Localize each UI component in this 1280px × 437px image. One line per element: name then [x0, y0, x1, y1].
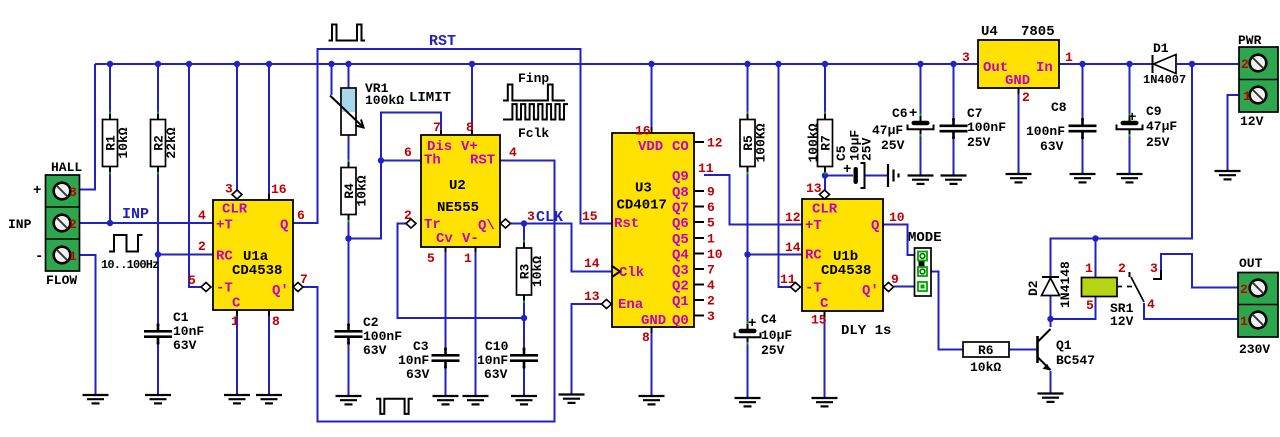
svg-text:CD4538: CD4538 — [821, 263, 871, 279]
junction rail/VDD U3 — [648, 61, 654, 67]
svg-text:Q: Q — [871, 218, 879, 234]
svg-text:16: 16 — [271, 182, 287, 197]
wire D1 to PWR pin2 — [1177, 63, 1239, 65]
wire MODE pin2 to R6 — [931, 272, 963, 350]
junction rail/V+ — [469, 61, 475, 67]
junction 12V/relay pin1 — [1092, 235, 1098, 241]
ground (U4 GND) — [1006, 174, 1032, 182]
svg-text:Q': Q' — [272, 283, 289, 299]
U3 pin names — [614, 139, 689, 329]
ground (C6) — [908, 176, 934, 184]
resistor R5 100K — [740, 112, 769, 175]
svg-text:DLY 1s: DLY 1s — [841, 323, 891, 339]
svg-text:3: 3 — [527, 209, 535, 224]
svg-text:D1: D1 — [1153, 41, 1169, 56]
svg-text:5: 5 — [427, 251, 435, 266]
resistor R6 10k — [963, 342, 1009, 375]
wire LIMIT net to U2 Dis pin7 — [349, 113, 442, 239]
resistor R4 10k — [341, 160, 370, 223]
svg-text:3: 3 — [1150, 261, 1158, 276]
svg-text:100KΩ: 100KΩ — [754, 123, 769, 162]
wire R6 to Q1 base — [1009, 349, 1038, 351]
U4 pin names — [983, 60, 1053, 89]
inverting bubble U1a CLR pin3 — [232, 190, 242, 199]
wire rail to R1 — [109, 64, 111, 120]
IC U3 CD4017 body — [612, 133, 694, 327]
svg-text:6: 6 — [297, 208, 305, 223]
svg-text:Q9: Q9 — [672, 169, 689, 185]
svg-text:11: 11 — [698, 161, 714, 176]
svg-text:16: 16 — [635, 124, 651, 139]
svg-text:10kΩ: 10kΩ — [116, 127, 131, 158]
inverting bubble U1b CLR pin13 — [820, 190, 830, 199]
svg-text:10: 10 — [889, 210, 905, 225]
wire rail to U2 V+ pin8 — [471, 64, 473, 130]
svg-text:1: 1 — [1243, 89, 1251, 104]
ground (C9) — [1117, 174, 1143, 182]
junction rail/C7 — [950, 61, 956, 67]
waveform symbol Finp — [503, 85, 565, 101]
wire R2 to RC node — [157, 167, 159, 255]
relay switch arm — [1131, 277, 1144, 302]
svg-text:25V: 25V — [1146, 135, 1170, 150]
wire rail to U1a CLR pin3 — [236, 64, 238, 190]
wire U1a Q-bar to U2 RST pin4 — [303, 161, 555, 422]
svg-text:8: 8 — [272, 314, 280, 329]
wire rail to C7 — [953, 64, 955, 125]
svg-text:C8: C8 — [1051, 100, 1067, 115]
wire node to C10 — [523, 318, 525, 353]
wire rail to U1b -T pin11 — [779, 64, 791, 287]
relay link (dashed) — [1117, 286, 1137, 288]
capacitor C6 electrolytic — [908, 114, 934, 137]
svg-text:14: 14 — [785, 240, 801, 255]
wire RC node down to C1 — [157, 255, 159, 329]
wire rail to HALL pin3 — [80, 64, 96, 190]
svg-text:RC: RC — [805, 248, 822, 264]
IC U2 NE555 body — [421, 135, 500, 247]
svg-text:INP: INP — [122, 206, 149, 223]
svg-text:Rst: Rst — [614, 216, 639, 232]
svg-text:5: 5 — [707, 216, 715, 231]
ground (U1a pin1) — [224, 395, 250, 403]
svg-text:MODE: MODE — [908, 230, 942, 246]
svg-text:Fclk: Fclk — [518, 126, 549, 141]
PWR pin numbers — [1241, 57, 1251, 104]
wire U2 Cv pin5 to C3 — [445, 252, 447, 353]
svg-text:2: 2 — [1240, 282, 1248, 297]
U2 top/bottom pin stubs — [441, 130, 476, 252]
wire rail to U1a pin16 — [268, 64, 270, 200]
junction rail/pin16 — [266, 61, 272, 67]
wire U4 GND pin2 to ground — [1018, 88, 1020, 174]
svg-text:+T: +T — [805, 218, 822, 234]
ground (C1) — [145, 395, 171, 403]
svg-text:C10: C10 — [485, 339, 509, 354]
svg-text:1: 1 — [69, 249, 77, 264]
wire rail to VR1 wiper — [331, 64, 333, 95]
resistor R1 10k — [103, 112, 132, 175]
svg-text:Q4: Q4 — [672, 248, 689, 264]
wire U3 Q9 pin11 to U1b +T pin12 — [704, 175, 802, 225]
svg-text:+: + — [33, 183, 41, 199]
U2 pin numbers — [404, 120, 535, 266]
svg-text:C3: C3 — [413, 339, 429, 354]
transistor Q1 BC547 — [1038, 329, 1051, 371]
svg-text:Ena: Ena — [618, 297, 644, 313]
svg-text:OUT: OUT — [1239, 256, 1263, 271]
ground (C3) — [433, 396, 459, 404]
wire R3 to node — [523, 294, 525, 319]
svg-text:Q0: Q0 — [672, 313, 689, 329]
svg-text:10..100Hz: 10..100Hz — [101, 258, 159, 272]
wire U1b Q-bar pin9 to MODE pin3 — [894, 286, 915, 288]
resistor R2 22k — [151, 112, 180, 175]
MODE jumper header — [915, 248, 932, 296]
svg-text:63V: 63V — [363, 343, 387, 358]
svg-text:RST: RST — [470, 153, 495, 169]
svg-text:3: 3 — [69, 185, 77, 200]
wire INP net HALL pin2 to U1a +T — [80, 222, 214, 224]
svg-text:10: 10 — [707, 247, 723, 262]
svg-text:Cv: Cv — [436, 231, 453, 247]
svg-text:Q2: Q2 — [672, 279, 689, 295]
relay contact pin2 — [1129, 272, 1131, 277]
svg-text:1: 1 — [1065, 50, 1073, 65]
ground (C8) — [1070, 174, 1096, 182]
svg-text:1N4007: 1N4007 — [1143, 73, 1186, 87]
svg-text:C6: C6 — [892, 106, 908, 121]
OUT pin numbers — [1240, 282, 1248, 329]
inverting bubble U2 Tr pin2 — [406, 219, 416, 228]
ground (U2 V-) — [463, 396, 489, 404]
wire switch pin3 to OUT pin2 — [1161, 254, 1238, 288]
wire C5 to ground — [864, 175, 888, 177]
svg-text:In: In — [1036, 60, 1053, 76]
svg-text:6: 6 — [404, 145, 412, 160]
wire R4 to timing node — [348, 216, 350, 239]
wire 12V net to C8 — [1082, 64, 1084, 125]
wire rail to C6 — [920, 64, 922, 122]
diode D1 1N4007 — [1153, 55, 1177, 74]
U3 Clk triangle pin14 — [612, 266, 620, 277]
ground (U1b pin15) — [812, 398, 838, 406]
svg-text:63V: 63V — [484, 367, 508, 382]
svg-text:47μF: 47μF — [1146, 119, 1177, 134]
svg-text:PWR: PWR — [1238, 33, 1262, 48]
wire U4 In to D1 — [1059, 63, 1152, 65]
junction R7/C5/CLR — [822, 172, 828, 178]
wire rail to R5 — [747, 64, 749, 120]
wire C7 to ground — [953, 133, 955, 176]
U3 output pin names Q9..Q1 — [672, 169, 689, 310]
U1b pin names — [805, 202, 879, 313]
svg-text:GND: GND — [641, 313, 666, 329]
junction 12V/PWR — [1189, 61, 1195, 67]
IC pin lead stubs — [237, 88, 1019, 333]
svg-text:1: 1 — [1240, 314, 1248, 329]
svg-text:C1: C1 — [173, 310, 189, 325]
svg-text:13: 13 — [584, 289, 600, 304]
svg-text:-T: -T — [216, 281, 233, 297]
inverting bubble U1a Q-bar pin7 — [293, 283, 303, 292]
U3 output pin stubs — [694, 142, 704, 316]
svg-text:CLR: CLR — [222, 202, 248, 218]
ground (U1a pin8) — [256, 395, 282, 403]
svg-text:1: 1 — [231, 314, 239, 329]
svg-text:12: 12 — [707, 136, 723, 151]
inverting bubble U1b Q-bar pin9 — [884, 283, 894, 292]
svg-text:Q\: Q\ — [478, 218, 495, 234]
svg-text:14: 14 — [584, 256, 600, 271]
junction relay pin5/Q1 collector — [1047, 316, 1053, 322]
U1a pin names — [216, 202, 289, 312]
svg-text:8: 8 — [642, 330, 650, 345]
wire LIMIT node to U2 Th pin6 — [381, 160, 421, 162]
svg-text:Q3: Q3 — [672, 263, 689, 279]
svg-text:2: 2 — [1118, 261, 1126, 276]
junction rail/-T U1b — [775, 61, 781, 67]
svg-text:12: 12 — [785, 210, 801, 225]
capacitor C8 — [1069, 118, 1097, 139]
wire relay pin5 to collector node — [1051, 297, 1096, 320]
U2 pin names — [424, 139, 495, 247]
regulator U4 7805 body — [978, 40, 1059, 88]
junction rail/CLR — [234, 61, 240, 67]
relay SR1 coil — [1082, 278, 1118, 297]
svg-text:C: C — [232, 296, 241, 312]
wire U1b Q pin10 to MODE pin1 — [883, 225, 915, 256]
wire CLR node to C5 — [825, 175, 853, 177]
svg-text:4: 4 — [198, 208, 206, 223]
IC U1b CD4538 body — [802, 199, 883, 311]
junction CLK/R3 — [521, 220, 527, 226]
svg-text:1: 1 — [464, 251, 472, 266]
svg-text:Q1: Q1 — [672, 294, 689, 310]
ground (C4) — [735, 398, 761, 406]
wire +5V top rail — [95, 63, 978, 65]
svg-text:RST: RST — [429, 33, 456, 50]
svg-text:C7: C7 — [967, 106, 983, 121]
svg-text:25V: 25V — [860, 137, 875, 161]
svg-text:10nF: 10nF — [173, 324, 204, 339]
connector PWR (2-pin) — [1239, 47, 1278, 112]
U4 pin numbers — [962, 50, 1073, 105]
svg-text:C9: C9 — [1146, 104, 1162, 119]
wire 12V net to C9 — [1129, 64, 1131, 122]
relay pin numbers — [1085, 261, 1158, 313]
svg-text:U3: U3 — [635, 181, 652, 197]
svg-text:2: 2 — [707, 294, 715, 309]
svg-text:HALL: HALL — [51, 160, 82, 175]
svg-text:10nF: 10nF — [398, 353, 429, 368]
svg-text:2: 2 — [69, 217, 77, 232]
svg-text:+: + — [1128, 110, 1136, 126]
U1a pin numbers — [188, 182, 308, 330]
ground (U3 pin8) — [639, 396, 665, 404]
wire R1 to INP net — [109, 167, 111, 224]
svg-text:2: 2 — [1241, 57, 1249, 72]
waveform symbol inverted pulses — [376, 399, 413, 414]
wire rail to R7 — [824, 64, 826, 120]
svg-text:FLOW: FLOW — [46, 273, 77, 288]
svg-text:Finp: Finp — [518, 71, 549, 86]
svg-text:4: 4 — [1147, 297, 1155, 312]
svg-text:10μF: 10μF — [761, 328, 792, 343]
wire RC node to U1b RC pin14 — [748, 254, 803, 256]
svg-text:63V: 63V — [1040, 139, 1064, 154]
svg-text:+T: +T — [216, 218, 233, 234]
svg-text:-: - — [35, 249, 43, 265]
svg-text:12V: 12V — [1110, 314, 1134, 329]
svg-text:Th: Th — [424, 153, 441, 169]
ground (PWR pin1) — [1215, 171, 1241, 179]
junction rail/-T — [186, 61, 192, 67]
svg-text:-T: -T — [805, 281, 822, 297]
wire C10 to ground — [523, 364, 525, 397]
svg-text:25V: 25V — [761, 343, 785, 358]
svg-text:9: 9 — [707, 185, 715, 200]
ground (Q1 emitter) — [1038, 394, 1064, 402]
svg-text:100nF: 100nF — [967, 120, 1006, 135]
wire D2 anode to Q1 collector — [1050, 295, 1052, 327]
wire U1a pin8 to ground — [268, 310, 270, 395]
svg-text:100kΩ: 100kΩ — [365, 93, 404, 108]
junction rail/VR1 — [345, 61, 351, 67]
IC U1a CD4538 body — [213, 200, 293, 310]
svg-text:RC: RC — [216, 249, 233, 265]
potentiometer VR1 100k — [330, 88, 364, 135]
inverting bubble U3 Ena pin13 — [602, 300, 612, 309]
svg-text:7: 7 — [707, 263, 715, 278]
svg-text:CD4017: CD4017 — [617, 198, 667, 214]
relay contact pin3 — [1153, 270, 1161, 279]
svg-text:Q6: Q6 — [672, 216, 689, 232]
svg-text:R6: R6 — [978, 343, 994, 358]
svg-text:1: 1 — [1085, 261, 1093, 276]
junction rail/C6 — [917, 61, 923, 67]
wire HALL pin1 to ground — [80, 255, 96, 395]
svg-text:Q5: Q5 — [672, 232, 689, 248]
svg-text:LIMIT: LIMIT — [409, 90, 451, 106]
svg-text:230V: 230V — [1239, 342, 1270, 357]
capacitor C9 electrolytic — [1117, 114, 1143, 137]
junction rail/R2 — [155, 61, 161, 67]
svg-text:25V: 25V — [967, 135, 991, 150]
wire timing node to C2 — [348, 239, 350, 329]
svg-text:+: + — [909, 106, 917, 122]
wire U3 Ena pin13 to ground — [572, 304, 602, 395]
wire PWR pin1 to ground — [1228, 95, 1240, 171]
wire R7 to U1b CLR pin13 — [824, 167, 826, 191]
wire U3 GND pin8 to ground — [651, 327, 653, 396]
svg-text:NE555: NE555 — [437, 200, 479, 216]
svg-text:C2: C2 — [363, 315, 379, 330]
svg-text:C4: C4 — [761, 312, 777, 327]
HALL labels — [8, 160, 82, 288]
junction R5/C4/RC U1b — [744, 251, 750, 257]
svg-text:CO: CO — [672, 139, 689, 155]
svg-text:+: + — [843, 162, 851, 178]
svg-text:10kΩ: 10kΩ — [530, 256, 545, 287]
connector OUT (2-pin) — [1238, 273, 1278, 338]
svg-text:CD4538: CD4538 — [232, 263, 282, 279]
inverting bubble U1b -T pin11 — [791, 283, 801, 292]
svg-text:22kΩ: 22kΩ — [164, 127, 179, 158]
HALL pin numbers — [69, 185, 77, 264]
ground (C5, sideways) — [888, 164, 899, 187]
wire +12V node to relay pin1 — [1095, 239, 1097, 278]
junction R3/C10/Tr — [521, 315, 527, 321]
svg-text:Q8: Q8 — [672, 185, 689, 201]
junction rail/R5 — [744, 61, 750, 67]
wire C4 to ground — [747, 339, 749, 398]
waveform symbol 10..100Hz input — [109, 235, 143, 252]
svg-text:10kΩ: 10kΩ — [355, 175, 370, 206]
svg-text:63V: 63V — [406, 367, 430, 382]
connector HALL (3-pin) — [46, 175, 80, 271]
wire C9 to ground — [1129, 129, 1131, 175]
wire rail to U3 VDD pin16 — [651, 64, 653, 133]
ground (HALL pin1) — [83, 395, 109, 403]
junction 12V/C9 — [1126, 61, 1132, 67]
wire CLK net U2 Q-bar to U3 Clk — [511, 224, 613, 272]
svg-text:U4: U4 — [981, 24, 998, 40]
svg-text:1N4148: 1N4148 — [1058, 261, 1073, 308]
junction Th — [378, 157, 384, 163]
svg-text:2: 2 — [1022, 90, 1030, 105]
svg-text:Q7: Q7 — [672, 201, 689, 217]
wire C1 to ground — [157, 340, 159, 396]
wire U2 Tr pin2 to R3/C10 node — [398, 224, 525, 319]
resistor R7 100k — [806, 112, 834, 175]
svg-text:+: + — [748, 316, 756, 332]
svg-text:Q: Q — [280, 218, 288, 234]
diode D2 1N4148 — [1042, 277, 1060, 296]
capacitor C2 — [335, 324, 363, 345]
ground (C7) — [941, 176, 967, 184]
svg-text:INP: INP — [8, 217, 32, 232]
wire rail to VR1 top — [348, 64, 350, 88]
svg-text:100nF: 100nF — [1026, 124, 1065, 139]
wire Q1 emitter to ground — [1050, 371, 1052, 394]
inverting bubble U1a -T pin5 — [201, 283, 211, 292]
svg-text:10kΩ: 10kΩ — [970, 360, 1001, 375]
ground (U3 Ena) — [559, 395, 585, 403]
svg-text:2: 2 — [198, 239, 206, 254]
wire RC node down to C4 — [747, 255, 749, 329]
svg-text:7805: 7805 — [1021, 24, 1055, 40]
svg-text:V-: V- — [462, 231, 479, 247]
svg-text:10nF: 10nF — [477, 353, 508, 368]
svg-text:25V: 25V — [881, 138, 905, 153]
svg-text:CLR: CLR — [812, 202, 838, 218]
capacitor C5 electrolytic — [854, 163, 865, 188]
svg-text:4: 4 — [509, 145, 517, 160]
svg-text:5: 5 — [1086, 298, 1094, 313]
svg-text:Q1: Q1 — [1056, 338, 1072, 353]
ground (C2) — [336, 396, 362, 404]
svg-text:U2: U2 — [449, 178, 466, 194]
wire RST net U1a Q to U3 Rst — [293, 49, 612, 224]
svg-text:3: 3 — [707, 309, 715, 324]
wire rail to R2 — [157, 64, 159, 120]
wire rail to U1a -T pin5 — [189, 64, 201, 287]
wire RC node to U1a RC pin2 — [158, 254, 213, 256]
capacitor C3 — [432, 348, 460, 369]
U3 pin numbers — [582, 124, 723, 346]
capacitor C4 electrolytic — [735, 322, 761, 345]
